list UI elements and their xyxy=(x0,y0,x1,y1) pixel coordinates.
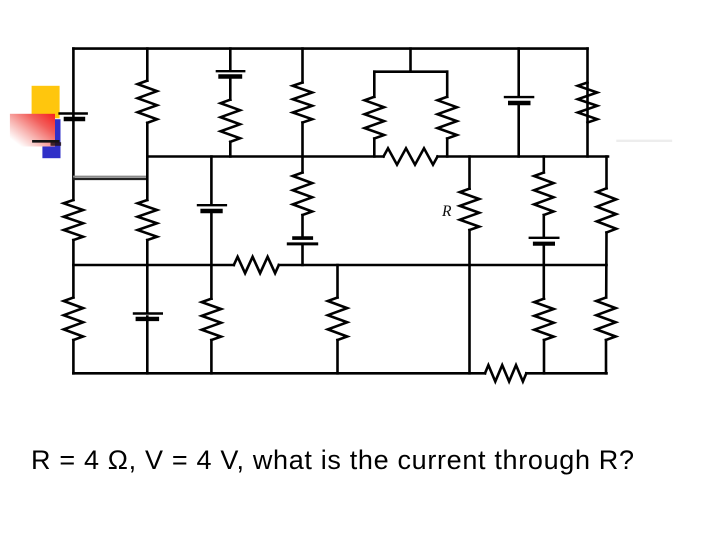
resistor R16 (col x=544 row3) xyxy=(534,299,553,340)
resistor R11 (col x=544 row2) xyxy=(534,173,553,216)
resistor R4 (col x=302 row1) xyxy=(293,83,312,123)
wire: parallel left branch xyxy=(373,72,376,157)
wire: parallel pair top bar xyxy=(374,70,447,73)
battery V3 long plate xyxy=(505,96,533,98)
resistor R17 (right rail row3) xyxy=(596,298,615,341)
battery V5 short plate (reversed, on top) xyxy=(294,236,311,240)
wire: column x=302 rows1-2 xyxy=(301,49,304,265)
resistor RH1 (horizontal on H1) xyxy=(384,148,438,164)
yellow square decoration xyxy=(32,86,60,119)
wire: right rail row1 xyxy=(586,49,589,157)
resistor R14 (col x=211 row3) xyxy=(202,299,221,340)
battery V7 long plate xyxy=(134,312,162,314)
resistor R3 (col x=230 row1) xyxy=(221,100,240,142)
battery V8 long plate (over decoration) xyxy=(33,140,58,143)
resistor R15 (col x=337 row3) xyxy=(328,298,347,341)
wire: bottom rail xyxy=(73,372,606,375)
wire: right rail rows 2-3 xyxy=(605,157,608,374)
caption text xyxy=(31,445,635,476)
label R xyxy=(442,203,451,221)
wire: left rail xyxy=(72,49,75,374)
battery V5 long plate xyxy=(288,242,316,245)
resistor R2 (col x=147 row1) xyxy=(138,81,157,123)
blue square decoration xyxy=(42,119,60,158)
battery V1 on left rail: long plate xyxy=(60,112,87,114)
wire: column x=337 row3 xyxy=(336,265,339,373)
resistor R12 (right rail row2) xyxy=(597,188,616,232)
resistor R10 (col x=302 row2) xyxy=(293,173,312,216)
battery V4 short plate xyxy=(203,209,221,213)
wire: column x=211 rows2-3 xyxy=(210,157,213,374)
red gradient square decoration xyxy=(10,114,55,147)
wire: mid rail H3 xyxy=(73,264,606,267)
wire: gray jog left-top of row2 xyxy=(74,176,147,178)
battery V6 short plate xyxy=(535,242,553,246)
wire: mid rail H1 xyxy=(147,155,608,158)
battery V1 short plate xyxy=(66,117,83,121)
wire: top rail xyxy=(73,47,587,50)
battery V2 long plate xyxy=(217,70,244,72)
resistor R7 (right rail row1) xyxy=(578,83,597,123)
resistor R9 (col x=147 row2) xyxy=(138,200,157,240)
wire: parallel right branch xyxy=(446,72,449,157)
resistor RH3 (horizontal on bottom rail) xyxy=(485,365,526,381)
resistor R5 (parallel left) xyxy=(365,97,384,139)
wire: stub from top rail to parallel pair xyxy=(409,49,412,72)
wire: column x=230 row1 xyxy=(229,49,232,157)
wire: column x=544 rows2-3 xyxy=(542,157,545,374)
battery V3 short plate xyxy=(510,101,528,105)
wire: dark jog left-top of row2 xyxy=(74,178,147,180)
wire: column x=147 full xyxy=(146,49,149,374)
battery V8 short plate (over decoration) xyxy=(52,142,59,146)
wire: column x=469 rows2-3 xyxy=(468,157,471,374)
resistor R8 (left rail row2) xyxy=(64,200,83,240)
battery V2 short plate xyxy=(221,74,241,78)
battery V4 long plate xyxy=(198,204,226,206)
battery V6 long plate xyxy=(530,237,559,239)
battery V7 short plate xyxy=(138,317,157,321)
resistor R6 (parallel right) xyxy=(438,97,457,139)
resistor RH2 (horizontal on H3) xyxy=(234,257,279,273)
resistor R (col x=469 row2) xyxy=(460,189,479,230)
faint gray guide line right side xyxy=(618,140,672,142)
wire: column x=518 row1 xyxy=(517,49,520,157)
resistor R13 (left rail row3) xyxy=(64,298,83,341)
